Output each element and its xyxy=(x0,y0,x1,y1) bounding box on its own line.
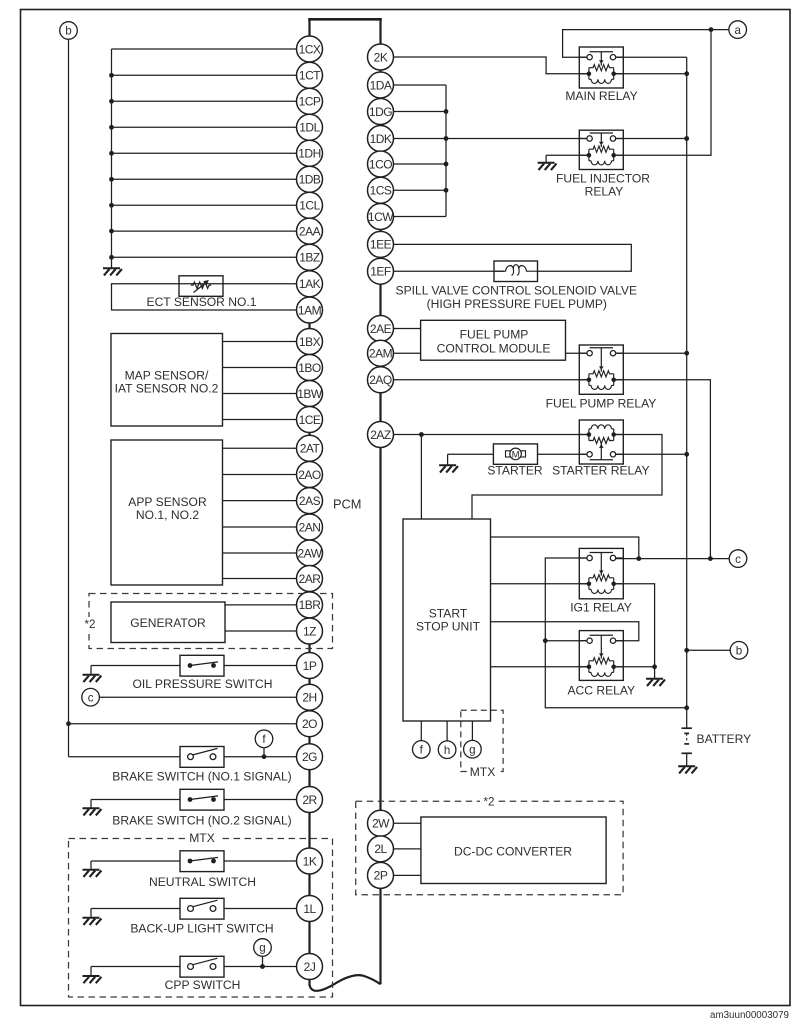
svg-text:BATTERY: BATTERY xyxy=(697,732,752,746)
wire ACC relay coil to ground bus xyxy=(616,666,655,668)
wire APP sensor to 2AW xyxy=(223,552,297,554)
wire oil pressure switch to 1P xyxy=(224,665,297,667)
wire top feed to node a xyxy=(563,27,729,57)
PCM pin 2J xyxy=(297,954,323,980)
svg-text:MAP SENSOR/: MAP SENSOR/ xyxy=(125,368,209,382)
wire c to 2H xyxy=(99,696,296,698)
label *2 for generator group xyxy=(82,617,98,631)
svg-text:PCM: PCM xyxy=(333,497,361,512)
ground for back-up light switch xyxy=(83,918,102,925)
wire injector bus to fuel injector relay contact xyxy=(446,138,587,140)
switch BRAKE SWITCH NO.1 (open) xyxy=(180,747,224,768)
svg-text:M: M xyxy=(512,450,520,461)
wire b line to brake switch no.1 xyxy=(69,756,181,758)
wire brake switch no.2 to 2R xyxy=(224,799,297,801)
wire start stop unit to ACC relay contact loop xyxy=(491,622,639,641)
relay IG1 RELAY xyxy=(579,548,623,598)
ground for neutral switch xyxy=(83,870,102,877)
wire 1CL to ground bus xyxy=(109,203,296,208)
wire 2AQ to fuel pump relay coil xyxy=(394,379,589,381)
svg-text:1EF: 1EF xyxy=(370,265,391,279)
PCM right column line xyxy=(379,19,381,984)
wire 1CP to ground bus xyxy=(109,99,296,104)
wire 2K to main relay coil xyxy=(394,57,589,74)
PCM pin 2L xyxy=(368,836,394,862)
PCM pin 2G xyxy=(297,744,323,770)
wire 1EF to spill valve xyxy=(394,270,504,272)
PCM pin 1BW xyxy=(297,381,323,407)
node b (right) xyxy=(730,642,748,660)
wire 2AZ to starter relay coil xyxy=(394,432,589,437)
wire 2W to DC-DC converter xyxy=(393,822,421,824)
wire start stop unit to node h xyxy=(446,721,448,741)
svg-text:1CT: 1CT xyxy=(299,69,321,83)
wire 1DG to injector bus xyxy=(394,109,448,114)
relay ACC RELAY xyxy=(579,631,623,681)
svg-text:am3uun00003079: am3uun00003079 xyxy=(710,1010,789,1021)
svg-text:1DG: 1DG xyxy=(369,105,392,119)
ground bus vertical xyxy=(111,49,113,268)
battery positive bus vertical xyxy=(684,57,689,728)
svg-text:b: b xyxy=(65,25,71,38)
ground for sensor return bus xyxy=(103,268,122,275)
svg-text:STOP UNIT: STOP UNIT xyxy=(416,620,481,634)
dashed group box around DC-DC converter xyxy=(356,795,623,894)
svg-text:1BO: 1BO xyxy=(298,361,321,375)
wire ground to brake switch no.2 xyxy=(91,800,180,809)
wire ACC relay contact to battery feed bus xyxy=(545,640,587,642)
node f (start stop unit) xyxy=(413,741,431,759)
wire APP sensor to 2AT xyxy=(223,447,297,449)
PCM label xyxy=(333,497,361,512)
PCM pin 1BZ xyxy=(297,244,323,270)
wire battery bus to node b xyxy=(687,649,731,651)
svg-text:2AZ: 2AZ xyxy=(370,428,391,442)
svg-text:2AO: 2AO xyxy=(298,468,321,482)
wire 2AA to ground bus xyxy=(109,229,296,234)
svg-text:1CX: 1CX xyxy=(299,42,321,56)
PCM pin 2R xyxy=(297,787,323,813)
relay FUEL PUMP RELAY xyxy=(579,345,623,394)
PCM pin 1DK xyxy=(368,126,394,152)
svg-text:1BR: 1BR xyxy=(299,598,322,612)
PCM top bar xyxy=(308,18,382,21)
relay STARTER RELAY xyxy=(579,420,623,464)
svg-text:2AE: 2AE xyxy=(370,322,392,336)
PCM pin 1DG xyxy=(368,99,394,125)
wire starter motor to ground xyxy=(448,454,494,465)
label FUEL PUMP RELAY xyxy=(546,397,657,411)
svg-text:NEUTRAL SWITCH: NEUTRAL SWITCH xyxy=(149,875,256,889)
PCM pin 1AK xyxy=(297,271,323,297)
block GENERATOR xyxy=(111,602,225,643)
wire 1DH to ground bus xyxy=(109,151,296,156)
svg-text:1L: 1L xyxy=(303,902,316,916)
svg-text:1CE: 1CE xyxy=(299,413,321,427)
ground for IG1/ACC relay coils xyxy=(646,679,665,686)
wire ground to oil pressure switch xyxy=(91,666,180,675)
PCM pin 2AO xyxy=(297,462,323,488)
PCM pin 1CT xyxy=(297,62,323,88)
PCM pin 2O xyxy=(297,711,323,737)
svg-text:2L: 2L xyxy=(374,842,387,856)
PCM pin 1P xyxy=(297,653,323,679)
svg-text:2AA: 2AA xyxy=(299,224,321,238)
PCM pin 2AQ xyxy=(368,367,394,393)
wire 1BZ to ground bus xyxy=(109,255,296,260)
PCM torn-edge squiggle at bottom xyxy=(310,975,381,991)
block DC-DC CONVERTER xyxy=(421,817,606,884)
dashed group box MTX around node g xyxy=(461,710,503,779)
PCM pin 1CP xyxy=(297,88,323,114)
switch OIL PRESSURE SWITCH (closed) xyxy=(180,655,224,676)
wire CPP switch to 2J xyxy=(224,956,297,969)
ground for fuel injector relay coil xyxy=(538,163,557,170)
wire 1CS to injector bus xyxy=(394,188,448,193)
wire fuel pump relay coil to IG1 output xyxy=(616,380,710,559)
wire fuel pump relay contact to battery bus xyxy=(616,352,687,354)
wire APP sensor to 2AR xyxy=(223,578,297,580)
wire start stop unit to node g xyxy=(471,721,473,740)
wire 1CX row to ground bus xyxy=(112,48,297,50)
wire 2L to DC-DC converter xyxy=(393,848,421,850)
svg-text:NO.1, NO.2: NO.1, NO.2 xyxy=(136,508,199,522)
svg-text:1CO: 1CO xyxy=(369,157,392,171)
wire neutral switch to 1K xyxy=(224,860,297,862)
wire 1DL to ground bus xyxy=(109,125,296,130)
svg-text:MTX: MTX xyxy=(470,765,496,779)
injector harness bus vertical xyxy=(445,85,447,217)
label NEUTRAL SWITCH xyxy=(149,875,256,889)
ground for brake switch no.2 xyxy=(83,808,102,815)
motor STARTER xyxy=(493,444,537,464)
wire APP sensor to 2AN xyxy=(223,526,297,528)
wire 1DB to ground bus xyxy=(109,177,296,182)
thermistor ECT SENSOR NO.1 xyxy=(179,276,223,297)
wire IG1 relay contact to battery feed bus xyxy=(543,558,687,708)
label ACC RELAY xyxy=(567,683,635,697)
wire 1DK to injector bus xyxy=(394,136,448,141)
label STARTER RELAY xyxy=(552,463,649,477)
svg-text:2P: 2P xyxy=(374,869,388,883)
svg-text:IAT SENSOR NO.2: IAT SENSOR NO.2 xyxy=(115,381,219,395)
svg-text:1BZ: 1BZ xyxy=(299,251,320,265)
svg-text:GENERATOR: GENERATOR xyxy=(130,616,206,630)
PCM pin 2P xyxy=(368,862,394,888)
PCM pin 1AM xyxy=(297,297,323,323)
relay MAIN RELAY xyxy=(579,47,623,88)
svg-text:1CW: 1CW xyxy=(368,210,394,224)
svg-text:2R: 2R xyxy=(302,793,317,807)
PCM pin 1Z xyxy=(297,618,323,644)
switch BACK-UP LIGHT SWITCH (open) xyxy=(180,898,224,919)
wire ground to neutral switch xyxy=(91,861,180,870)
battery BATTERY xyxy=(682,728,752,766)
PCM pin 2AR xyxy=(297,566,323,592)
wire start stop unit to node f xyxy=(420,721,422,741)
svg-text:2AT: 2AT xyxy=(300,442,321,456)
svg-text:BACK-UP LIGHT SWITCH: BACK-UP LIGHT SWITCH xyxy=(130,921,273,935)
wire main relay contact to battery bus xyxy=(616,56,687,58)
PCM pin 1K xyxy=(297,848,323,874)
svg-text:1DH: 1DH xyxy=(298,147,321,161)
PCM pin 1EF xyxy=(368,258,394,284)
wire brake switch no.1 to 2G xyxy=(224,747,297,759)
svg-text:SPILL VALVE CONTROL SOLENOID V: SPILL VALVE CONTROL SOLENOID VALVE xyxy=(396,283,638,297)
PCM pin 2H xyxy=(297,684,323,710)
svg-text:2G: 2G xyxy=(302,750,317,764)
svg-text:CONTROL MODULE: CONTROL MODULE xyxy=(437,342,551,356)
label FUEL INJECTOR RELAY xyxy=(556,172,650,199)
svg-text:ACC RELAY: ACC RELAY xyxy=(567,683,635,697)
node b (top left) xyxy=(60,22,78,40)
svg-text:1CL: 1CL xyxy=(299,199,320,213)
PCM pin 2AS xyxy=(297,488,323,514)
svg-text:1Z: 1Z xyxy=(303,624,316,638)
svg-text:MTX: MTX xyxy=(189,831,215,845)
svg-text:BRAKE SWITCH (NO.2 SIGNAL): BRAKE SWITCH (NO.2 SIGNAL) xyxy=(112,813,291,827)
svg-text:1P: 1P xyxy=(303,659,317,673)
wire MAP sensor to 1BX xyxy=(223,341,297,343)
PCM pin 2AW xyxy=(297,540,323,566)
document id text xyxy=(710,1010,789,1021)
PCM left column line xyxy=(308,19,310,986)
wire 2P to DC-DC converter xyxy=(393,874,421,876)
svg-text:2AW: 2AW xyxy=(297,546,322,560)
PCM pin 2AA xyxy=(297,218,323,244)
PCM pin 1BO xyxy=(297,355,323,381)
node c (right) xyxy=(729,550,747,568)
svg-text:1EE: 1EE xyxy=(370,238,392,252)
wire 1CW to injector bus xyxy=(394,216,446,218)
wire 1CT to ground bus xyxy=(109,73,296,78)
svg-text:1DB: 1DB xyxy=(299,173,321,187)
wire MAP sensor to 1BO xyxy=(223,367,297,369)
label IG1 RELAY xyxy=(570,601,632,615)
wire IG1 relay output to node c xyxy=(616,556,730,561)
PCM pin 1EE xyxy=(368,231,394,257)
svg-text:APP SENSOR: APP SENSOR xyxy=(128,495,207,509)
svg-text:c: c xyxy=(88,691,94,704)
wire start stop unit to ACC relay coil xyxy=(491,666,589,668)
svg-text:FUEL PUMP: FUEL PUMP xyxy=(460,328,529,342)
svg-text:1AM: 1AM xyxy=(298,303,322,317)
svg-text:2AN: 2AN xyxy=(299,520,321,534)
svg-text:BRAKE SWITCH (NO.1 SIGNAL): BRAKE SWITCH (NO.1 SIGNAL) xyxy=(112,770,291,784)
wire ground to back-up light switch xyxy=(91,909,180,918)
wire starter relay coil to start stop unit xyxy=(472,435,662,520)
wire MAP sensor to 1CE xyxy=(223,419,297,421)
dashed group box MTX (manual transmission switches) xyxy=(69,831,333,997)
svg-text:OIL PRESSURE SWITCH: OIL PRESSURE SWITCH xyxy=(133,677,273,691)
svg-text:2J: 2J xyxy=(304,960,316,974)
svg-text:1AK: 1AK xyxy=(299,277,321,291)
svg-text:STARTER: STARTER xyxy=(487,463,543,477)
svg-text:2AR: 2AR xyxy=(299,572,322,586)
wire 1CO to injector bus xyxy=(394,162,448,167)
wire IG1 relay coil to ground bus xyxy=(616,584,657,679)
wire start stop unit to IG1 relay coil xyxy=(491,583,589,585)
node g (CPP switch) xyxy=(254,939,272,957)
label ECT SENSOR NO.1 xyxy=(147,295,257,309)
svg-text:RELAY: RELAY xyxy=(585,185,624,199)
PCM pin 1CX xyxy=(297,36,323,62)
ground for CPP switch xyxy=(83,976,102,983)
svg-text:(HIGH PRESSURE FUEL PUMP): (HIGH PRESSURE FUEL PUMP) xyxy=(427,297,607,311)
label STARTER xyxy=(487,463,543,477)
PCM pin 1CW xyxy=(368,204,395,230)
svg-text:g: g xyxy=(469,743,475,756)
wire main relay coil to battery bus xyxy=(616,73,687,75)
svg-text:2O: 2O xyxy=(302,717,317,731)
wire fuel injector relay coil to ground xyxy=(546,155,589,163)
svg-text:IG1 RELAY: IG1 RELAY xyxy=(570,601,632,615)
svg-text:1CS: 1CS xyxy=(370,184,392,198)
PCM pin 1L xyxy=(297,896,323,922)
wire APP sensor to 2AO xyxy=(223,474,297,476)
PCM pin 1DH xyxy=(297,140,323,166)
svg-text:2AM: 2AM xyxy=(369,347,393,361)
relay FUEL INJECTOR RELAY xyxy=(579,130,623,169)
svg-text:ECT SENSOR NO.1: ECT SENSOR NO.1 xyxy=(147,295,257,309)
PCM pin 2AN xyxy=(297,514,323,540)
svg-text:FUEL INJECTOR: FUEL INJECTOR xyxy=(556,172,650,186)
svg-text:h: h xyxy=(444,744,450,757)
wire MAP sensor to 1BW xyxy=(223,393,297,395)
wire back-up light switch to 1L xyxy=(224,908,297,910)
solenoid SPILL VALVE CONTROL SOLENOID VALVE xyxy=(494,261,538,282)
label BRAKE SWITCH (NO.1 SIGNAL) xyxy=(112,770,291,784)
svg-text:DC-DC CONVERTER: DC-DC CONVERTER xyxy=(454,844,572,858)
wire 1EE loop to spill valve xyxy=(394,244,631,271)
svg-text:c: c xyxy=(735,553,741,566)
PCM pin 1CL xyxy=(297,192,323,218)
svg-text:1BX: 1BX xyxy=(299,335,321,349)
PCM pin 2AM xyxy=(368,340,394,366)
svg-text:CPP SWITCH: CPP SWITCH xyxy=(165,978,241,992)
wire start stop unit to IG1 relay contact loop xyxy=(491,537,639,559)
wire 2AZ branch to start stop unit xyxy=(420,435,422,520)
block APP SENSOR NO.1, NO.2 xyxy=(111,440,223,585)
label MAIN RELAY xyxy=(565,89,637,103)
svg-text:1DL: 1DL xyxy=(299,121,320,135)
svg-text:2AQ: 2AQ xyxy=(369,373,392,387)
wire fuel injector relay contact to battery bus xyxy=(616,138,687,140)
node f (brake switch) xyxy=(255,730,273,748)
svg-text:1DK: 1DK xyxy=(370,132,392,146)
svg-text:2H: 2H xyxy=(302,691,316,705)
svg-text:2K: 2K xyxy=(374,50,388,64)
svg-text:*2: *2 xyxy=(85,618,96,631)
wire generator to 1BR xyxy=(225,604,297,606)
label CPP SWITCH xyxy=(165,978,241,992)
block MAP SENSOR / IAT SENSOR NO.2 xyxy=(111,334,223,427)
label BRAKE SWITCH (NO.2 SIGNAL) xyxy=(112,813,291,827)
PCM pin 1DA xyxy=(368,72,394,98)
PCM pin 1CS xyxy=(368,177,394,203)
node g (start stop unit) xyxy=(464,740,482,758)
svg-text:*2: *2 xyxy=(484,795,495,808)
svg-text:1CP: 1CP xyxy=(299,95,321,109)
label BACK-UP LIGHT SWITCH xyxy=(130,921,273,935)
PCM pin 2AZ xyxy=(368,422,394,448)
svg-text:1DA: 1DA xyxy=(370,78,392,92)
wire node a drop to fuel injector relay coil xyxy=(616,30,711,156)
dashed group box around GENERATOR xyxy=(89,594,333,649)
ground for starter motor xyxy=(439,465,458,472)
wire generator to 1Z xyxy=(225,630,297,632)
PCM pin 2K xyxy=(368,44,394,70)
PCM pin 1CO xyxy=(368,151,394,177)
PCM pin 1DB xyxy=(297,166,323,192)
svg-text:b: b xyxy=(736,645,742,658)
svg-text:START: START xyxy=(429,607,468,621)
wire 2AM to fuel pump control module xyxy=(394,352,421,354)
svg-text:1K: 1K xyxy=(303,854,317,868)
svg-text:MAIN RELAY: MAIN RELAY xyxy=(565,89,637,103)
svg-text:STARTER RELAY: STARTER RELAY xyxy=(552,463,649,477)
PCM pin 1DL xyxy=(297,114,323,140)
switch CPP SWITCH (open) xyxy=(180,956,224,977)
PCM pin 1BR xyxy=(297,592,323,618)
wire starter relay contact to battery bus xyxy=(616,453,687,455)
wire b vertical run xyxy=(68,39,70,756)
block START STOP UNIT xyxy=(403,519,491,721)
label SPILL VALVE CONTROL SOLENOID VALVE xyxy=(396,283,638,311)
PCM pin 2AT xyxy=(297,435,323,461)
PCM pin 2W xyxy=(368,810,394,836)
switch BRAKE SWITCH NO.2 (closed) xyxy=(180,789,224,810)
PCM pin 1BX xyxy=(297,329,323,355)
wire 1DA to injector bus xyxy=(394,84,446,86)
node h (start stop unit) xyxy=(438,741,456,759)
block FUEL PUMP CONTROL MODULE xyxy=(421,320,566,360)
PCM pin 2AE xyxy=(368,316,394,342)
label OIL PRESSURE SWITCH xyxy=(133,677,273,691)
PCM pin 1CE xyxy=(297,407,323,433)
ground for battery xyxy=(678,766,697,773)
ground for oil pressure switch xyxy=(83,675,102,682)
wire 2AE to fuel pump control module xyxy=(394,328,421,330)
svg-text:2W: 2W xyxy=(372,817,390,831)
wire 1AK to ECT sensor loop xyxy=(112,284,297,310)
wire starter relay contact to starter motor xyxy=(538,453,588,455)
svg-text:1BW: 1BW xyxy=(297,387,323,401)
svg-text:a: a xyxy=(734,24,741,37)
wire ground to CPP switch xyxy=(91,967,180,977)
wire fuel pump control module to fuel pump relay contact xyxy=(566,352,588,354)
svg-text:FUEL PUMP RELAY: FUEL PUMP RELAY xyxy=(546,397,657,411)
node a (top right) xyxy=(729,21,747,39)
svg-text:g: g xyxy=(259,942,265,955)
switch NEUTRAL SWITCH (closed) xyxy=(180,851,224,872)
node c (left) xyxy=(82,688,100,706)
wire 2O to b line xyxy=(66,721,296,726)
wire APP sensor to 2AS xyxy=(223,500,297,502)
svg-text:2AS: 2AS xyxy=(299,494,321,508)
